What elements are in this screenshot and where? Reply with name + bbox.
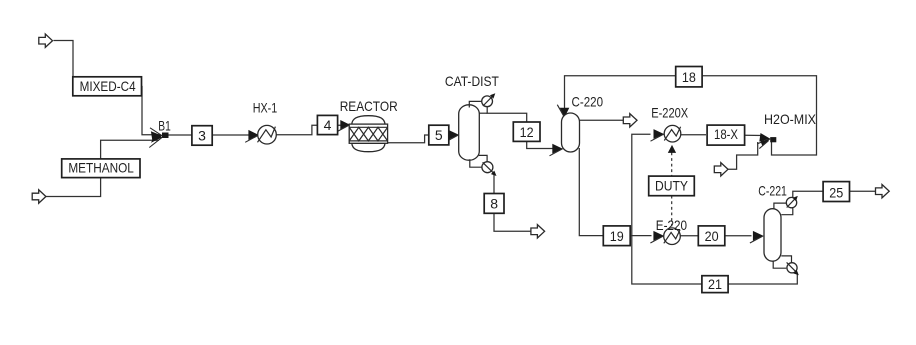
- svg-text:CAT-DIST: CAT-DIST: [445, 73, 499, 89]
- svg-text:25: 25: [829, 184, 843, 200]
- heat exchanger HX-1: [258, 125, 277, 144]
- wire stream 4 HX-1 to REACTOR: [277, 125, 342, 134]
- stream box 18-X: [707, 125, 745, 145]
- svg-text:12: 12: [520, 124, 534, 140]
- arrowhead into E-220: [653, 231, 663, 241]
- product arrow stream 8: [531, 225, 545, 238]
- label box METHANOL: [62, 159, 140, 178]
- product arrow C-220 overhead: [623, 114, 637, 127]
- svg-text:HX-1: HX-1: [253, 99, 278, 115]
- stream box 25: [823, 182, 849, 202]
- svg-text:18: 18: [682, 69, 696, 85]
- label box MIXED-C4: [73, 77, 142, 96]
- reboiler C-221: [787, 262, 799, 275]
- condenser CAT-DIST: [482, 93, 496, 107]
- arrowhead into CAT-DIST: [449, 130, 459, 140]
- wire stream 8 CAT-DIST bottoms to product: [494, 175, 531, 232]
- svg-text:MIXED-C4: MIXED-C4: [80, 78, 136, 94]
- wire water feed to H2O-MIX: [728, 142, 758, 169]
- stream box 3: [192, 126, 212, 146]
- arrowhead into REACTOR: [340, 120, 350, 129]
- wire stream 21 C-221 bottoms to E-220X: [632, 134, 798, 284]
- svg-text:4: 4: [324, 117, 332, 133]
- condenser C-221: [786, 196, 798, 208]
- stream box 4: [317, 115, 337, 134]
- arrowhead into C-221: [753, 231, 763, 241]
- arrowhead heat stream into E-220X bottom: [668, 145, 676, 153]
- arrowhead into B1 from METHANOL: [151, 133, 162, 142]
- stream box 18: [676, 67, 702, 87]
- node B1 mixer block: [162, 133, 169, 139]
- svg-text:21: 21: [708, 276, 722, 292]
- arrowhead into E-220X: [654, 129, 664, 139]
- node H2O-MIX mixer block: [770, 137, 776, 142]
- wire stream 3 B1 to HX-1: [169, 134, 251, 136]
- wire MIXED-C4 feed to B1: [54, 41, 161, 135]
- wire heat stream DUTY dashed E-220X link: [671, 153, 673, 177]
- wire METHANOL feed to B1: [46, 140, 159, 196]
- arrowhead into HX-1: [248, 130, 258, 140]
- arrowhead into B1 from MIXED-C4: [151, 131, 162, 140]
- wire heat stream DUTY dashed E-220 link: [671, 196, 673, 229]
- stream box 21: [702, 276, 728, 293]
- column C-221: [764, 203, 793, 268]
- stream box 20: [698, 226, 725, 246]
- wire stream 5 REACTOR to CAT-DIST: [388, 135, 450, 143]
- reactor REACTOR: [349, 116, 387, 152]
- column C-220: [562, 113, 580, 152]
- svg-text:19: 19: [610, 228, 624, 244]
- arrowhead into C-220 top: [560, 108, 570, 118]
- wire stream 18-X E-220X to H2O-MIX: [681, 134, 706, 136]
- arrowhead into C-220 side: [552, 144, 563, 154]
- arrowhead into H2O-MIX from water: [760, 140, 770, 146]
- svg-text:REACTOR: REACTOR: [340, 98, 398, 114]
- svg-text:METHANOL: METHANOL: [68, 159, 134, 175]
- reboiler CAT-DIST: [482, 162, 497, 176]
- wire stream 19 C-220 bottoms to E-220: [579, 148, 651, 236]
- svg-text:B1: B1: [158, 117, 171, 133]
- wire stream 25 C-221 condenser to product: [793, 191, 876, 197]
- wire stream 12 CAT-DIST condenser to C-220: [487, 107, 554, 149]
- svg-text:DUTY: DUTY: [655, 178, 689, 194]
- product arrow stream 25: [876, 185, 890, 198]
- feed arrow water: [714, 163, 728, 176]
- svg-text:E-220: E-220: [656, 217, 687, 233]
- stream box 12: [513, 122, 540, 141]
- wire stream 20 E-220 to C-221: [681, 235, 752, 237]
- svg-text:5: 5: [435, 127, 443, 143]
- stream box 5: [429, 125, 449, 145]
- svg-text:H2O-MIX: H2O-MIX: [764, 111, 817, 127]
- svg-text:20: 20: [705, 228, 719, 244]
- feed arrow METHANOL: [32, 190, 46, 203]
- svg-text:C-221: C-221: [758, 182, 787, 198]
- svg-text:18-X: 18-X: [714, 126, 739, 142]
- column CAT-DIST: [459, 101, 488, 167]
- wire stream 18 recycle H2O-MIX to C-220 top: [565, 76, 817, 155]
- wire 18-X box to mixer: [745, 134, 763, 136]
- svg-text:E-220X: E-220X: [651, 104, 689, 120]
- heat exchanger E-220X: [664, 125, 681, 142]
- feed arrow MIXED-C4: [39, 34, 53, 47]
- svg-text:3: 3: [198, 128, 206, 144]
- svg-text:C-220: C-220: [572, 94, 604, 110]
- arrowhead into H2O-MIX from 18-X: [759, 133, 770, 142]
- stream box 19: [603, 226, 630, 246]
- wire C-220 overhead outlet: [580, 119, 624, 121]
- heat stream box DUTY: [649, 176, 695, 196]
- svg-text:8: 8: [490, 196, 498, 212]
- stream box 8: [484, 194, 504, 214]
- heat exchanger E-220: [664, 228, 681, 245]
